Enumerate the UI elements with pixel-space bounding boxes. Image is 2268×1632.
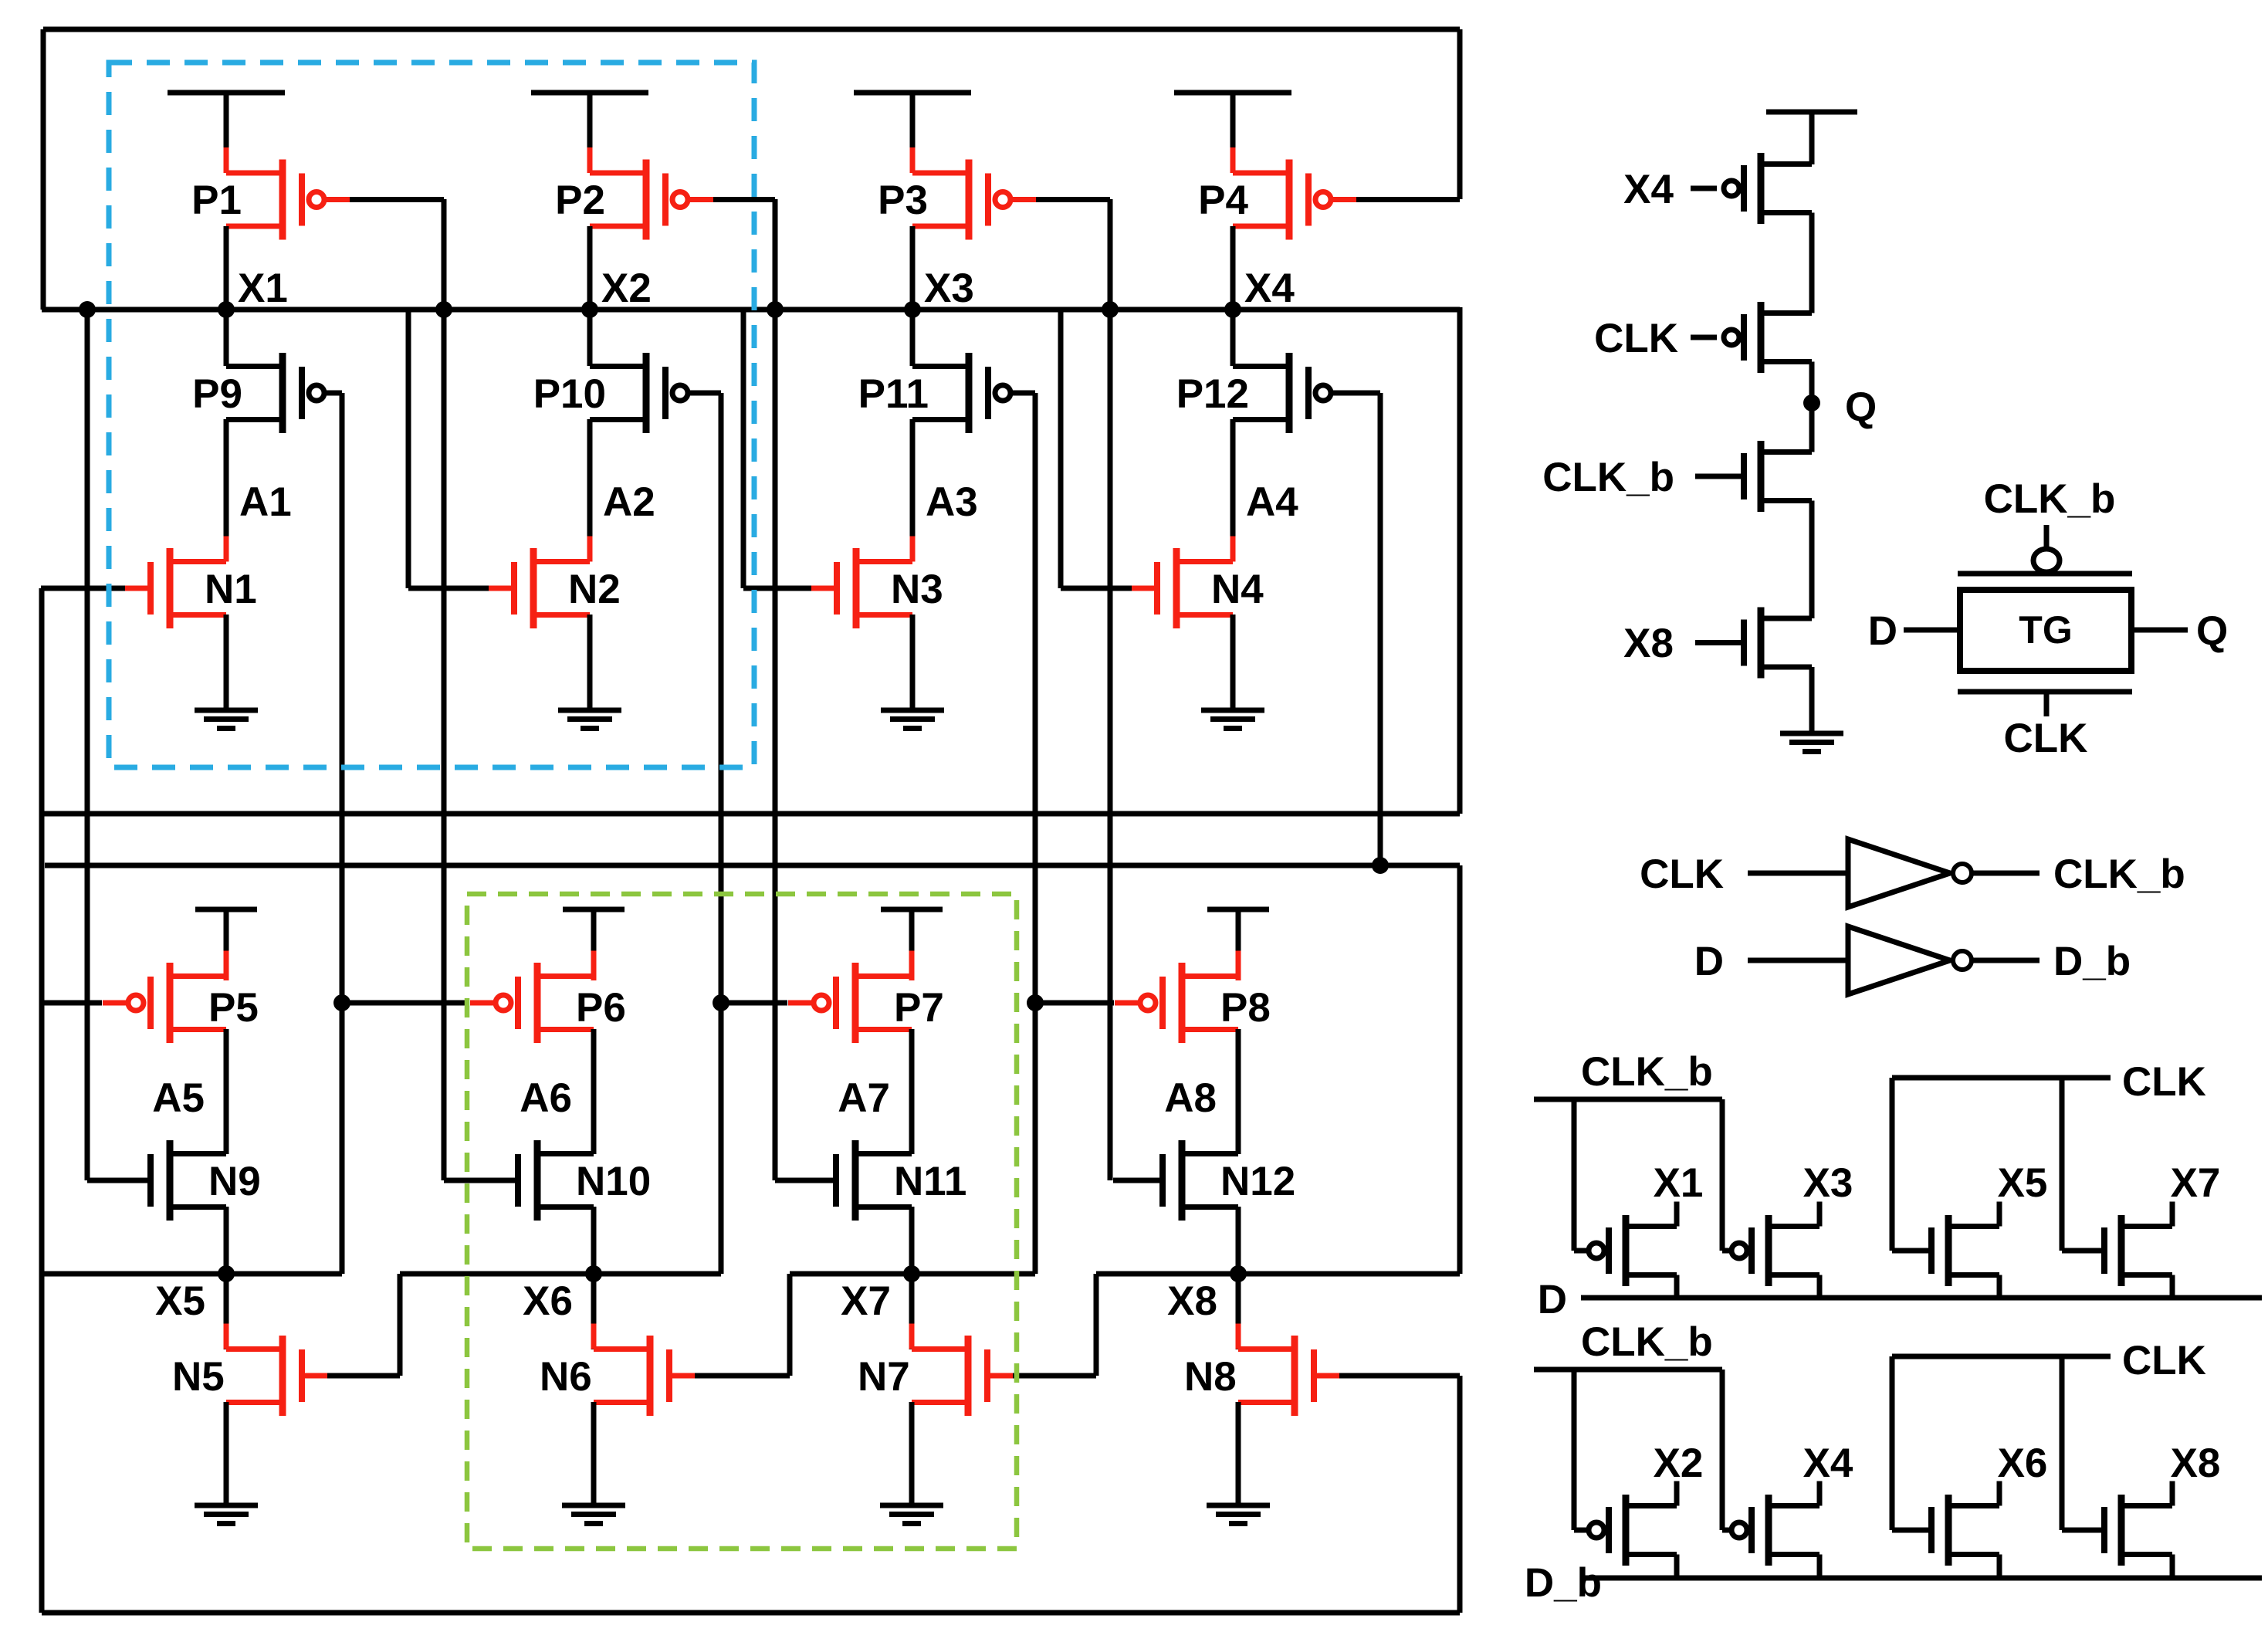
rail CLK D [1892,1075,2111,1081]
svg-text:P7: P7 [894,985,944,1031]
wire X2 branch to N3 gate [741,310,746,588]
wire X4 net vertical (P3 gate to N12 gate) [1108,199,1113,1180]
svg-text:X7: X7 [841,1278,891,1324]
svg-text:A1: A1 [239,479,292,525]
wire stack X8 to ground [1809,667,1815,733]
outer border left (X1 net wire) [41,29,46,310]
junction P1 gate on top rail [435,301,452,318]
wire right edge X4 rail to lower box [1457,307,1463,814]
wire X1 drain stub [1674,1202,1680,1227]
svg-text:N10: N10 [576,1159,651,1204]
transistor X8 pass (NMOS) [2104,1495,2172,1566]
wire X1 to P5/N9 gates vertical [85,310,90,1180]
wire X2 drain stub [1674,1481,1680,1506]
VDD supply bar column 4 bottom [1207,907,1269,912]
wire X6 to N6 drain [591,1274,597,1349]
junction dot P8 gate [1027,994,1044,1011]
wire P1 drain to X rail [224,226,229,310]
transistor P9 (PMOS) [226,353,324,433]
ground symbol col3 bottom [880,1505,943,1524]
wire N5 gate lead [327,1373,400,1379]
bottom border wire [42,1610,1460,1616]
svg-text:P6: P6 [576,985,626,1031]
rail CLK_b D [1534,1097,1722,1102]
svg-text:N5: N5 [172,1354,225,1400]
wire VDD stem col2 bottom [591,909,597,980]
junction X5 on bottom rail [218,1265,235,1282]
wire N5 source to ground [224,1402,229,1505]
wire N4 source to ground [1230,615,1236,710]
wire N6 source to ground [591,1402,597,1505]
svg-text:X7: X7 [2171,1160,2221,1206]
svg-text:X4: X4 [1803,1441,1853,1486]
transistor N5 (NMOS) [226,1324,327,1428]
svg-text:Q: Q [2196,608,2228,654]
blue dashed box (first stage pair) [109,63,754,767]
transistor N6 (NMOS) [594,1324,695,1428]
transistor N10 (NMOS) [518,1140,594,1221]
wire N8 source to ground [1236,1402,1241,1505]
svg-text:Q: Q [1845,384,1877,430]
svg-text:N3: N3 [891,567,943,612]
svg-text:D: D [1538,1277,1567,1322]
wire N9 gate lead [87,1178,151,1183]
node X8 rail [1096,1271,1460,1277]
VDD supply bar column 2 top [531,90,648,96]
wire X5 to P6/P9 gates vertical [340,393,345,1274]
svg-text:A5: A5 [152,1075,205,1121]
wire X5 source to rail [1997,1275,2002,1298]
wire X5 to N5 drain [224,1274,229,1349]
svg-text:CLK_b: CLK_b [1581,1319,1713,1365]
junction P3 gate on top rail [1102,301,1119,318]
wire right edge H4 down to X8 rail [1457,865,1463,1274]
junction X6 on bottom rail [585,1265,602,1282]
transistor P7 (PMOS) [788,951,912,1055]
junction P2 gate on top rail [767,301,784,318]
wire X7 to N7 drain [909,1274,915,1349]
transistor X4 pass (PMOS) [1724,153,1812,224]
wire N7 source to ground [909,1402,915,1505]
junction dot P6 gate [333,994,350,1011]
VDD supply bar column 1 top [168,90,285,96]
rail D [1581,1295,2262,1301]
svg-text:D_b: D_b [2053,939,2131,984]
TG bottom plate [1958,689,2132,695]
ground symbol col4 bottom [1207,1505,1270,1524]
wire TG CLK stem [2044,692,2050,716]
wire N10 source to X rail [591,1207,597,1274]
transistor X8 pass (NMOS) [1744,608,1812,679]
TG top plate [1958,571,2132,577]
wire CLK_b gate lead stack [1695,474,1744,479]
svg-text:N9: N9 [208,1159,261,1204]
wire P8 gate lead [1035,1001,1114,1006]
junction X4 on top rail [1224,301,1241,318]
svg-text:X3: X3 [924,266,974,311]
transistor P5 (PMOS) [103,951,226,1055]
outer border top (VDD loop wire) [43,27,1460,32]
wire VDD stem stack [1809,112,1815,164]
node A3 wire [910,419,916,561]
wire CLK to X5 gate [1890,1078,1895,1251]
VDD supply bar column 4 top [1174,90,1291,96]
wire X4 drain stub [1817,1481,1823,1506]
wire TG CLK_b stem [2044,525,2050,549]
svg-text:P8: P8 [1220,985,1271,1031]
transistor N2 (NMOS) [489,537,590,641]
svg-text:X2: X2 [601,266,652,311]
wire X2 to P10 [587,310,593,366]
wire X4 to P12 [1230,310,1236,366]
wire CLK_b to X1 gate [1572,1099,1577,1251]
wire N4 gate lead [1061,586,1132,591]
svg-text:X6: X6 [1998,1441,2048,1486]
inverter D to D_b [1748,958,1848,963]
svg-text:N7: N7 [858,1354,910,1400]
wire X8 gate lead stack [1695,640,1744,645]
transistor N11 (NMOS) [836,1140,912,1221]
wire left vertical N1 gate to bottom border [39,588,45,1613]
wire stack X4-CLK [1809,213,1815,313]
wire X3 to P11 [910,310,916,366]
ground symbol col4 top [1201,710,1264,729]
junction X2 on top rail [581,301,598,318]
wire X3 drain stub [1817,1202,1823,1227]
node A6 wire [591,1029,597,1154]
transistor P3 (PMOS) [912,147,1036,252]
rail CLK_b D_b [1534,1367,1722,1373]
ground symbol stack [1780,733,1843,752]
svg-text:CLK: CLK [2122,1338,2206,1383]
wire N9 source to X rail [224,1207,229,1274]
wire N6 gate lead [695,1373,790,1379]
node X7 rail [790,1271,1035,1277]
transistor P1 (PMOS) [226,147,350,252]
ground symbol col3 top [881,710,944,729]
svg-text:CLK_b: CLK_b [1581,1049,1713,1095]
wire P3 gate lead [1036,197,1110,202]
wire CLK to X6 gate [1890,1356,1895,1530]
wire N10 gate lead [444,1178,518,1183]
svg-text:P4: P4 [1198,178,1248,223]
svg-text:X1: X1 [238,266,288,311]
wire X7 source to rail [2170,1275,2175,1298]
transistor X5 pass (NMOS) [1931,1215,1999,1286]
wire X3 net vertical (P2 gate to N11 gate) [773,199,778,1180]
svg-text:A2: A2 [603,479,655,525]
svg-text:D_b: D_b [1525,1560,1602,1606]
VDD supply bar column 3 bottom [881,907,943,912]
transistor P2 (PMOS) [590,147,713,252]
wire P9 gate lead [324,391,342,396]
wire X1 branch to N2 gate [406,310,411,588]
node A7 wire [909,1029,915,1154]
wire horizontal separator H3 (bottom of top box) [43,811,1460,817]
wire VDD stem col1 [224,93,229,173]
wire CLK_b to X2 gate [1572,1370,1577,1530]
transistor N8 (NMOS) [1238,1324,1339,1428]
wire X4 gate lead stack [1691,186,1717,191]
wire P6 gate lead [342,1001,469,1006]
wire N12 gate lead [1113,1178,1163,1183]
wire N11 source to X rail [909,1207,915,1274]
wire right edge N8 gate down to bottom border [1457,1376,1463,1613]
svg-text:P10: P10 [533,371,606,417]
wire P5 gate lead [41,1001,102,1006]
junction dot P12 gate on H4 [1372,857,1389,874]
transistor X6 pass (NMOS) [1931,1495,1999,1566]
svg-text:P2: P2 [555,178,605,223]
wire X6 drain stub [1997,1481,2002,1506]
ground symbol col2 top [558,710,621,729]
wire P10 gate lead [688,391,721,396]
transistor P6 (PMOS) [470,951,594,1055]
svg-text:X8: X8 [1167,1278,1217,1324]
transistor P8 (PMOS) [1115,951,1238,1055]
svg-text:CLK_b: CLK_b [1984,476,2116,522]
svg-text:P9: P9 [192,371,242,417]
transistor X3 pass (PMOS) [1731,1215,1819,1286]
wire N1 gate lead [41,586,125,591]
transistor P11 (PMOS) [912,353,1010,433]
transistor P10 (PMOS) [590,353,688,433]
transistor X1 pass (PMOS) [1589,1215,1677,1286]
wire stack CLK_b to X8 [1809,501,1815,619]
VDD supply bar output stack [1766,110,1857,115]
svg-text:P12: P12 [1176,371,1249,417]
wire N2 gate lead [408,586,489,591]
transistor X4 pass (PMOS) [1731,1495,1819,1566]
wire X1 source to rail [1674,1275,1680,1298]
wire X6 source to rail [1997,1555,2002,1579]
wire N2 source to ground [587,615,593,710]
transistor N12 (NMOS) [1163,1140,1238,1221]
svg-text:X2: X2 [1654,1441,1704,1486]
transistor N4 (NMOS) [1132,537,1233,641]
junction X7 on bottom rail [903,1265,920,1282]
svg-text:N8: N8 [1184,1354,1237,1400]
wire X8 source to rail [2170,1555,2175,1579]
wire X4 source to rail [1817,1555,1823,1579]
wire X7 drain stub [2170,1202,2175,1227]
wire P4 drain to X rail [1230,226,1236,310]
wire CLK gate lead stack [1691,335,1717,340]
wire horizontal X8 feed line H4 [45,863,1460,868]
node A2 wire [587,419,593,561]
wire N3 gate lead [743,586,811,591]
wire N1 source to ground [224,615,229,710]
node A1 wire [224,419,229,561]
svg-text:X8: X8 [1623,621,1674,666]
svg-text:CLK: CLK [1640,852,1724,897]
transistor X7 pass (NMOS) [2104,1215,2172,1286]
svg-text:A8: A8 [1164,1075,1217,1121]
junction X1 on top rail [218,301,235,318]
svg-text:P5: P5 [208,985,259,1031]
green dashed box (stage 6-7 pair) [467,894,1017,1549]
wire X6 rail down to N5 gate [398,1274,403,1376]
ground symbol col1 top [195,710,258,729]
wire P1 gate lead [350,197,444,202]
wire N12 source to X rail [1236,1207,1241,1274]
wire X1 to P9 [224,310,229,366]
wire X8 drain stub [2170,1481,2175,1506]
transistor N9 (NMOS) [151,1140,226,1221]
svg-text:X5: X5 [1998,1160,2048,1206]
wire VDD stem col4 bottom [1236,909,1241,980]
svg-text:X1: X1 [1654,1160,1704,1206]
wire TG to Q [2131,628,2188,633]
rail CLK D_b [1892,1354,2111,1359]
wire N8 gate lead [1339,1373,1460,1379]
svg-text:N6: N6 [540,1354,592,1400]
wire N11 gate lead [775,1178,836,1183]
node X6 rail [400,1271,721,1277]
wire stack CLK to Q [1809,362,1815,452]
svg-text:A7: A7 [838,1075,890,1121]
VDD supply bar column 1 bottom [195,907,257,912]
transmission gate TG box [1960,590,2131,671]
transistor CLK_b pass (NMOS) [1744,441,1812,512]
outer border right upper segment to P4 gate [1457,29,1463,199]
transistor P12 (PMOS) [1233,353,1331,433]
wire N3 source to ground [910,615,916,710]
wire X8 rail down to N7 gate [1094,1274,1099,1376]
wire CLK_b to X3 gate [1720,1099,1725,1251]
wire X8 to N8 drain [1236,1274,1241,1349]
wire P3 drain to X rail [910,226,916,310]
wire VDD stem col1 bottom [224,909,229,980]
wire P11 gate lead [1010,391,1035,396]
wire P4 gate lead [1356,197,1460,202]
svg-text:CLK: CLK [2122,1059,2206,1105]
wire X3 source to rail [1817,1275,1823,1298]
wire X2 source to rail [1674,1555,1680,1579]
svg-text:N12: N12 [1220,1159,1295,1204]
svg-text:CLK: CLK [1594,316,1678,361]
wire P12 gate vertical to H4 [1378,393,1383,865]
svg-text:N4: N4 [1211,567,1264,612]
wire P2 gate lead [713,197,775,202]
ground symbol col2 bottom [562,1505,625,1524]
wire P12 gate lead [1331,391,1380,396]
wire P7 gate lead [721,1001,787,1006]
wire X7 rail down to N6 gate [787,1274,793,1376]
wire X2 net vertical (P1 gate to N10 gate) [442,199,447,1180]
transistor N7 (NMOS) [912,1324,1013,1428]
wire VDD stem col3 bottom [909,909,915,980]
wire X5 drain stub [1997,1202,2002,1227]
wire VDD stem col2 [587,93,593,173]
transistor N1 (NMOS) [125,537,226,641]
transistor N3 (NMOS) [811,537,912,641]
svg-text:TG: TG [2019,608,2072,652]
transistor P4 (PMOS) [1233,147,1356,252]
junction dot P7 gate [713,994,729,1011]
svg-text:X3: X3 [1803,1160,1853,1206]
node Q dot [1803,394,1820,411]
wire CLK to X7 gate [2060,1078,2065,1251]
svg-text:X4: X4 [1623,167,1674,212]
transistor CLK pass (PMOS) [1724,302,1812,373]
wire X7 to P8/P11 gates vertical [1033,393,1038,1274]
svg-text:A4: A4 [1246,479,1298,525]
inverter CLK to CLK_b [1748,871,1848,876]
wire VDD stem col4 [1230,93,1236,173]
wire VDD stem col3 [910,93,916,173]
junction left branch on top rail [79,301,96,318]
svg-text:A3: A3 [926,479,978,525]
node A4 wire [1230,419,1236,561]
svg-text:N2: N2 [568,567,621,612]
svg-text:D: D [1694,939,1724,984]
wire D to TG [1904,628,1960,633]
node A8 wire [1236,1029,1241,1154]
svg-text:N1: N1 [205,567,257,612]
node A5 wire [224,1029,229,1154]
rail D_b [1581,1576,2262,1581]
TG top bubble [2033,549,2060,572]
svg-text:D: D [1868,608,1897,654]
svg-text:A6: A6 [520,1075,572,1121]
wire P2 drain to X rail [587,226,593,310]
svg-text:X8: X8 [2171,1441,2221,1486]
svg-text:P11: P11 [858,371,929,417]
junction X3 on top rail [904,301,921,318]
svg-text:N11: N11 [894,1159,966,1204]
svg-text:CLK_b: CLK_b [2053,852,2185,897]
wire X6 to P7/P10 gates vertical [719,393,724,1274]
node X1 rail (X1-X4 horizontal rail) [42,307,1460,313]
wire CLK to X8 gate [2060,1356,2065,1530]
ground symbol col1 bottom [195,1505,258,1524]
svg-text:X4: X4 [1244,266,1295,311]
wire X3 branch to N4 gate [1058,310,1064,588]
transistor X2 pass (PMOS) [1589,1495,1677,1566]
svg-text:X5: X5 [155,1278,205,1324]
svg-text:P3: P3 [878,178,928,223]
junction X8 on bottom rail [1230,1265,1247,1282]
svg-text:CLK: CLK [2004,716,2088,761]
node X5 rail [42,1271,342,1277]
svg-text:P1: P1 [191,178,242,223]
svg-text:CLK_b: CLK_b [1542,455,1674,500]
VDD supply bar column 2 bottom [563,907,625,912]
svg-text:X6: X6 [523,1278,573,1324]
VDD supply bar column 3 top [854,90,971,96]
wire N7 gate lead [1013,1373,1096,1379]
wire CLK_b to X4 gate [1720,1370,1725,1530]
